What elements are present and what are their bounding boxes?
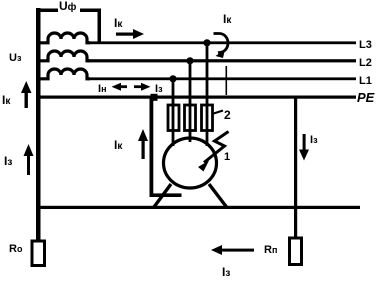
node on L2 (junction dot) [186, 57, 193, 64]
svg-text:L1: L1 [359, 75, 372, 87]
svg-text:Rп: Rп [264, 244, 277, 256]
svg-text:Iз: Iз [4, 154, 12, 168]
arrow Iз down (right) [299, 134, 309, 161]
svg-text:2: 2 [224, 108, 231, 122]
wire: line L3 [87, 41, 356, 44]
wire: line L1 [87, 77, 356, 80]
wire: top loop right vertical down to L3 [98, 9, 102, 44]
wire: PE conductor [38, 96, 356, 99]
wire: fuse 3 to motor [206, 130, 209, 146]
wire: top loop horizontal right segment [80, 9, 101, 13]
wire: drop from L2 to fuse 2 [189, 61, 192, 105]
wire: drop from L1 to fuse 1 [172, 79, 175, 105]
leader line to label 2 [212, 111, 223, 115]
svg-text:Iз: Iз [310, 134, 318, 146]
svg-text:Iн: Iн [98, 83, 107, 95]
node on PE (junction dot, motor PE tap) [151, 94, 158, 101]
motor base left leg [154, 184, 171, 207]
svg-text:Iз: Iз [155, 83, 163, 95]
transformer neutral bus (left vertical wire) [36, 8, 41, 241]
svg-text:Iк: Iк [2, 93, 11, 107]
winding W3 (phase L1 coil) [40, 69, 90, 79]
arrow Iз left (bottom) [211, 245, 254, 255]
motor base right leg [209, 184, 227, 207]
svg-text:L3: L3 [359, 39, 372, 51]
node on L3 (junction dot) [203, 39, 210, 46]
svg-text:Iк: Iк [114, 16, 123, 30]
wire: motor frame horizontal link [150, 193, 182, 197]
wire: PE down conductor to Rn [294, 97, 297, 238]
svg-text:Uф: Uф [59, 0, 77, 13]
svg-text:Iк: Iк [114, 138, 123, 152]
wire: top loop horizontal left segment [36, 9, 58, 13]
winding W2 (phase L2 coil) [40, 51, 90, 61]
arrow Iк up (left) [21, 81, 32, 108]
stray vertical tick between L2 and PE [226, 66, 228, 95]
fuse F2 [185, 104, 196, 132]
arrow Iз up (left) [24, 144, 34, 175]
earthing resistor R0 [32, 241, 45, 266]
arrow Iз right (on PE) [134, 83, 151, 91]
fuse F1 [168, 104, 179, 132]
node on L1 (junction dot) [169, 75, 176, 82]
svg-text:Uз: Uз [9, 52, 22, 64]
wire: line L2 [87, 59, 356, 62]
wire: earth/ground line [36, 206, 360, 209]
wire: drop from L3 to fuse 3 [206, 43, 209, 105]
svg-text:Iк: Iк [223, 12, 232, 26]
fuse F3 [202, 104, 213, 132]
svg-text:Rо: Rо [9, 243, 23, 255]
fault arrow (lightning into motor, label 1) [198, 132, 229, 172]
arrow Iк right (top) [116, 29, 144, 39]
svg-text:1: 1 [224, 151, 230, 163]
curved arrow at L3 junction [214, 34, 228, 59]
svg-text:PE: PE [357, 90, 375, 105]
wire: fuse 1 to motor [172, 130, 175, 146]
wire: fuse 2 to motor [189, 130, 192, 142]
motor M (circle) [164, 138, 217, 188]
wire: PE drop to motor frame [150, 97, 154, 197]
svg-text:L2: L2 [359, 57, 372, 69]
arrow Iн left (on PE) [112, 83, 128, 91]
arrow Iк up (middle) [138, 129, 148, 159]
earthing resistor Rn [290, 238, 302, 265]
winding W1 (phase L3 coil) [40, 33, 90, 43]
svg-text:Iз: Iз [222, 265, 230, 279]
